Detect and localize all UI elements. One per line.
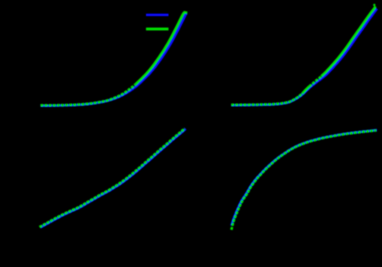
- green dashed curve, bottom-left subplot: [40, 128, 185, 227]
- legend blue line swatch: [146, 14, 169, 17]
- blue solid curve, bottom-right subplot: [231, 130, 377, 226]
- blue solid curve, top-left subplot: [41, 13, 187, 106]
- blue solid curve, bottom-left subplot: [41, 129, 186, 228]
- green dashed curve, top-right subplot: [231, 94, 302, 105]
- green dash dot at curve tip, top-right subplot: [373, 4, 375, 6]
- blue solid curve, top-right subplot: [231, 9, 377, 106]
- green dashed curve, bottom-right subplot: [231, 130, 376, 229]
- green dashed curve end hook, top-left subplot: [184, 11, 188, 14]
- green dashed curve, top-left subplot: [41, 84, 136, 105]
- legend green line swatch: [146, 28, 169, 31]
